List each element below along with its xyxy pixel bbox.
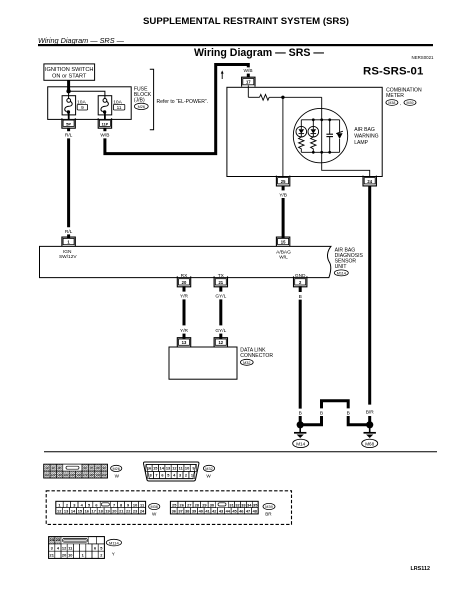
node junction at 282.7 (281, 96, 284, 99)
svg-text:B: B (299, 410, 302, 416)
svg-text:M38: M38 (151, 505, 158, 509)
svg-text:17P: 17P (83, 473, 88, 477)
air bag diagnosis sensor unit box (40, 246, 331, 277)
svg-text:30: 30 (210, 502, 214, 507)
svg-text:15P: 15P (70, 473, 75, 477)
svg-text:47: 47 (246, 509, 250, 514)
svg-text:21: 21 (218, 280, 223, 285)
label COMBINATION METER (386, 88, 422, 106)
wire feed down into lamp (321, 97, 323, 152)
lamp bottom rail (301, 151, 339, 154)
svg-text:Y: Y (112, 551, 115, 556)
wire Y/R RX to DLC (180, 286, 189, 339)
wire lamp to 24 (322, 152, 370, 177)
svg-text:W/L: W/L (279, 255, 288, 261)
svg-text:17: 17 (246, 80, 251, 85)
connector 25 (276, 176, 289, 186)
svg-text:IGN: IGN (63, 249, 72, 255)
wire fuse 9 to 5P (68, 112, 70, 120)
svg-text:11P: 11P (45, 473, 50, 477)
svg-text:(J/B): (J/B) (134, 98, 145, 104)
svg-text:25: 25 (281, 179, 286, 184)
svg-text:Refer to “EL-POWER”.: Refer to “EL-POWER”. (157, 99, 209, 105)
node ground left (297, 421, 304, 428)
svg-text:BR: BR (265, 512, 272, 517)
ignition switch box (44, 64, 95, 80)
svg-text:AIR BAG: AIR BAG (354, 127, 375, 133)
svg-text:UNIT: UNIT (335, 264, 347, 270)
wire Y/B 25 to unit 15 (279, 186, 287, 238)
air bag warning lamp circle (293, 108, 347, 162)
label DATA LINK CONNECTOR (240, 347, 273, 365)
separator rule (44, 451, 437, 453)
svg-text:5P: 5P (66, 121, 71, 126)
svg-text:Wiring Diagram — SRS —: Wiring Diagram — SRS — (38, 36, 125, 45)
connector 13 (177, 338, 190, 347)
fuse block J/B box (48, 87, 132, 120)
wire junction down to 25 (282, 97, 284, 177)
svg-text:W/B: W/B (243, 68, 252, 74)
bracket fuse block label (150, 69, 154, 129)
svg-text:SW/12V: SW/12V (59, 254, 77, 260)
svg-text:20: 20 (112, 509, 116, 514)
connector face M32 data link (143, 462, 214, 481)
svg-text:M38: M38 (388, 101, 395, 105)
data link connector box (169, 347, 237, 379)
svg-text:RX: RX (181, 273, 188, 279)
svg-text:NERS0021: NERS0021 (412, 55, 435, 60)
svg-text:IGNITION SWITCH: IGNITION SWITCH (45, 67, 93, 73)
capacitor in lamp (326, 120, 333, 153)
wire R/L from 5P down to unit (65, 128, 73, 238)
svg-text:M114: M114 (109, 540, 119, 545)
label AIR BAG DIAGNOSIS SENSOR UNIT (334, 248, 363, 276)
ground symbol M14 (293, 425, 309, 448)
svg-text:W: W (206, 473, 211, 478)
label A/BAG W/L (276, 249, 291, 260)
svg-text:W: W (115, 473, 120, 478)
svg-text:6P: 6P (84, 466, 87, 470)
svg-text:16P: 16P (77, 473, 82, 477)
svg-text:10: 10 (68, 553, 72, 558)
svg-text:20: 20 (62, 553, 66, 558)
svg-text:11P: 11P (102, 122, 109, 126)
zener diode in lamp (336, 120, 343, 153)
svg-text:SUPPLEMENTAL RESTRAINT SYSTEM: SUPPLEMENTAL RESTRAINT SYSTEM (SRS) (143, 16, 349, 27)
resistor in meter (248, 94, 321, 100)
connector 20 (177, 276, 190, 286)
svg-text:W/B: W/B (100, 133, 109, 139)
svg-text:17: 17 (92, 509, 96, 514)
svg-text:CONNECTOR: CONNECTOR (240, 353, 273, 359)
resistor under LED 2 (311, 137, 316, 152)
svg-text:Y/R: Y/R (180, 294, 189, 300)
svg-text:11: 11 (117, 105, 122, 110)
svg-text:M14: M14 (296, 441, 305, 446)
svg-text:Y/B: Y/B (279, 192, 287, 198)
svg-text:14P: 14P (64, 473, 69, 477)
svg-text:19P: 19P (96, 473, 101, 477)
svg-text:3P: 3P (58, 466, 61, 470)
ground bridge wire B (300, 401, 370, 425)
svg-text:METER: METER (386, 93, 404, 99)
connector 15 (276, 237, 289, 246)
svg-text:8P: 8P (96, 466, 99, 470)
wire 17 into meter (247, 85, 249, 97)
svg-text:12: 12 (218, 340, 223, 345)
label AIR BAG WARNING LAMP (354, 127, 378, 146)
connector face M39 (170, 501, 275, 516)
svg-text:M26: M26 (113, 467, 120, 471)
svg-text:24: 24 (367, 179, 372, 184)
arrow up (to EL-POWER) (221, 70, 224, 79)
svg-text:WARNING: WARNING (354, 134, 378, 140)
svg-text:GND: GND (295, 273, 306, 279)
svg-text:M39: M39 (265, 505, 272, 509)
dashed group box (46, 491, 291, 525)
svg-text:ON or START: ON or START (52, 74, 87, 80)
svg-text:B: B (347, 410, 350, 416)
svg-text:R/L: R/L (65, 133, 73, 139)
wire branch to fuse 2 (69, 91, 105, 98)
svg-text:M114: M114 (337, 272, 346, 276)
connector face M114 (49, 537, 122, 559)
svg-text:LRS112: LRS112 (411, 566, 430, 572)
svg-text:7P: 7P (90, 466, 93, 470)
connector face M38 (56, 501, 160, 516)
connector 17 (242, 77, 255, 86)
svg-text:13: 13 (182, 340, 187, 345)
connector 1 (62, 237, 75, 246)
header rule (38, 44, 433, 46)
svg-text:10: 10 (133, 502, 137, 507)
svg-text:7: 7 (155, 473, 157, 478)
wire B GND to ground (299, 286, 302, 425)
wire junction to fuse 1 (68, 91, 70, 98)
connector 2 (294, 276, 307, 286)
svg-text:M32: M32 (243, 361, 250, 365)
svg-text:TX: TX (218, 273, 225, 279)
svg-text:18P: 18P (89, 473, 94, 477)
connector face M26 (44, 464, 122, 478)
svg-text:B: B (299, 294, 302, 300)
resistor under LED 1 (299, 137, 304, 152)
LED 2 (308, 120, 319, 137)
wire W/B from 11P to combination meter (100, 65, 252, 154)
svg-text:9: 9 (81, 105, 84, 110)
svg-text:13P: 13P (57, 473, 62, 477)
node: fuse feed junction (66, 89, 70, 93)
svg-text:M68: M68 (365, 441, 374, 446)
lamp top rail (301, 118, 339, 121)
fuse 11 (10A) (98, 96, 125, 115)
svg-text:20: 20 (182, 280, 187, 285)
svg-text:15: 15 (281, 240, 286, 245)
svg-text:M26: M26 (138, 105, 145, 109)
svg-text:M32: M32 (205, 467, 212, 471)
svg-text:1P: 1P (45, 466, 48, 470)
label FUSE BLOCK (J/B) (134, 86, 152, 109)
wire fuse 11 to 11P (104, 112, 106, 120)
label IGN SW/12V (59, 249, 77, 260)
svg-text:Wiring Diagram — SRS —: Wiring Diagram — SRS — (194, 47, 324, 59)
svg-text:B: B (320, 410, 323, 416)
svg-text:B/R: B/R (366, 410, 375, 416)
connector 24 (363, 176, 376, 186)
svg-text:40: 40 (199, 509, 203, 514)
svg-text:10: 10 (185, 466, 189, 471)
wire ignition to fuse block (67, 80, 70, 91)
svg-text:A/BAG: A/BAG (276, 249, 291, 255)
svg-text:12P: 12P (51, 473, 56, 477)
fuse 9 (10A) (62, 96, 88, 115)
svg-text:GY/L: GY/L (215, 294, 226, 300)
connector 5P (62, 118, 75, 128)
connector 21 (214, 276, 227, 286)
LED 1 (296, 120, 307, 137)
svg-text:M39: M39 (407, 101, 414, 105)
connector 11P (98, 118, 111, 128)
wire B/R 24 down to ground (366, 186, 375, 425)
svg-text:Y/R: Y/R (180, 328, 189, 334)
svg-text:9P: 9P (103, 466, 106, 470)
combination meter box (227, 87, 382, 176)
connector 12 (214, 338, 227, 347)
svg-text:37: 37 (178, 509, 182, 514)
svg-text:,: , (400, 101, 401, 106)
wire GY/L TX to DLC (215, 286, 226, 339)
label RX TX GND (181, 273, 306, 279)
svg-text:2P: 2P (52, 466, 55, 470)
svg-text:R/L: R/L (65, 229, 73, 235)
svg-text:7: 7 (113, 502, 115, 507)
svg-text:GY/L: GY/L (215, 328, 226, 334)
svg-text:20P: 20P (102, 473, 107, 477)
svg-text:27: 27 (187, 502, 191, 507)
svg-text:LAMP: LAMP (354, 140, 368, 146)
svg-text:RS-SRS-01: RS-SRS-01 (363, 66, 424, 78)
svg-text:W: W (152, 512, 157, 517)
node ground right (366, 421, 373, 428)
ground symbol M68 (362, 425, 378, 448)
